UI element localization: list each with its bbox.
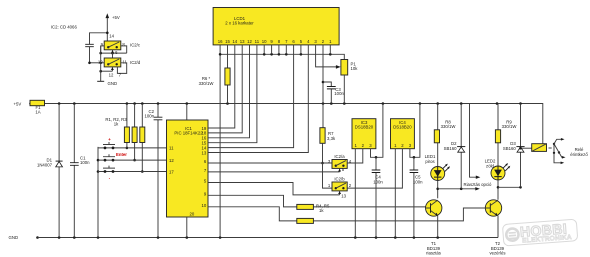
svg-text:100n: 100n <box>144 113 154 118</box>
wire IC2/d pin10 row <box>88 62 104 65</box>
resistor R3 <box>140 104 145 172</box>
capacitor C5 100n <box>410 156 424 238</box>
svg-text:11: 11 <box>255 39 260 44</box>
junction dots +5V rail <box>58 102 522 105</box>
wire data node to IC2/b pin1 <box>323 163 333 188</box>
wire PIC pin14 to LCD pin6 <box>208 45 294 148</box>
wire IC2/c pin8 loop <box>121 46 127 53</box>
wire IC2 left branch <box>90 32 109 45</box>
ground symbol IC2 block <box>97 81 117 86</box>
svg-text:330/1W: 330/1W <box>199 81 215 86</box>
svg-text:17: 17 <box>169 169 174 174</box>
wire LED2 to T2 collector <box>497 180 500 200</box>
node GND terminal <box>9 235 39 240</box>
wire LED2 node to D3 <box>498 186 522 189</box>
svg-text:1N4007: 1N4007 <box>37 163 53 168</box>
wire PIC pin13 to LCD pin4 <box>208 45 308 153</box>
wire PIC pin19 to LCD pin14 <box>208 45 235 128</box>
svg-text:100n: 100n <box>334 91 344 96</box>
wire PIC pin15 to LCD pin11 <box>208 45 257 143</box>
value label R4 R5 1k <box>316 204 330 214</box>
capacitor C3 100n <box>323 82 344 104</box>
resistor R4 <box>208 195 426 209</box>
svg-text:2 x 16 karkater: 2 x 16 karkater <box>225 20 254 25</box>
wire IC2 block left vertical to ground <box>100 46 102 81</box>
svg-text:1A: 1A <box>35 110 40 115</box>
IC1 left pin labels 11 12 17 <box>169 146 174 175</box>
svg-text:GND: GND <box>9 235 19 240</box>
wire IC2/c bypass loop <box>99 52 126 55</box>
wire PIC pin16 to LCD pin12 <box>208 45 250 138</box>
LCD1 2x16 module <box>213 8 339 45</box>
svg-text:DS18B20: DS18B20 <box>393 125 412 130</box>
wire LCD pin7 stub <box>285 45 287 54</box>
resistor R8 330/1W <box>434 104 456 167</box>
capacitor C2 100n <box>144 104 162 238</box>
LCD1 pin number labels 16..1 <box>218 39 332 44</box>
wire button common vertical to GND <box>97 147 99 238</box>
IC2/d control pin 12 <box>99 67 121 77</box>
wire GND rail <box>38 237 499 239</box>
svg-text:12: 12 <box>109 72 114 77</box>
svg-text:100n: 100n <box>413 180 423 185</box>
capacitor IC2 block <box>85 44 94 63</box>
transistor T2 BD139 <box>485 200 505 256</box>
svg-text:SB160: SB160 <box>503 146 517 151</box>
wire LCD pin5 stub <box>300 45 302 54</box>
svg-text:IC2: CD 4066: IC2: CD 4066 <box>51 25 78 30</box>
wire IC2/d pin11 loop <box>117 63 126 74</box>
svg-text:15: 15 <box>225 39 230 44</box>
svg-text:piros: piros <box>425 159 434 164</box>
svg-text:IC2/b: IC2/b <box>334 177 345 182</box>
wire LCD pin9 stub <box>271 45 273 54</box>
junction dots button common <box>97 159 100 173</box>
junction dots GND rail <box>58 236 439 239</box>
svg-text:vezérlés: vezérlés <box>489 250 505 255</box>
svg-text:IC2/d: IC2/d <box>130 60 141 65</box>
wire PIC pin1 supply from +5V rail <box>186 104 188 121</box>
svg-text:10: 10 <box>202 203 207 208</box>
analog switch IC2/a <box>328 154 352 168</box>
svg-text:+5V: +5V <box>14 102 22 107</box>
wire IC3 pin1 to GND rail <box>354 149 356 238</box>
wire LCD pin3 to P1 wiper <box>316 45 341 69</box>
wire LCD ground bus to P1 top <box>220 54 344 59</box>
wire PIC pin18 to LCD pin13 <box>208 45 242 133</box>
relay coil K1 <box>519 144 546 152</box>
capacitor C1 100n <box>70 104 90 238</box>
analog switch IC2/c <box>101 41 141 50</box>
IC2/c control pin 6 <box>111 50 118 58</box>
svg-text:IC2/a: IC2/a <box>334 154 345 159</box>
svg-text:12: 12 <box>169 158 174 163</box>
temperature sensor IC4 DS18B20 <box>391 119 415 149</box>
svg-text:IC2/c: IC2/c <box>130 43 141 48</box>
svg-text:330/1W: 330/1W <box>502 124 518 129</box>
svg-text:riasztás: riasztás <box>426 250 441 255</box>
wire IC3 pin2 to IC2/a pin4 <box>347 149 363 163</box>
capacitor C4 100n <box>372 156 384 238</box>
potentiometer P1 10k <box>341 60 358 104</box>
node +5V input terminal <box>14 102 32 107</box>
wire PIC pin6 to IC2/a pin3 <box>208 162 332 164</box>
svg-text:DS18B20: DS18B20 <box>355 125 374 130</box>
transistor T1 BD139 <box>426 200 442 256</box>
node +5V arrow supply IC2 <box>106 13 120 41</box>
wire alarm option upper arrow <box>470 104 481 179</box>
svg-text:GND: GND <box>108 81 118 86</box>
svg-text:Riasztás opció: Riasztás opció <box>464 182 493 187</box>
svg-text:zöld: zöld <box>486 164 494 169</box>
svg-text:10: 10 <box>262 39 267 44</box>
wire IC3 pin3 to +5V riser <box>371 104 383 158</box>
LED1 piros <box>425 154 450 180</box>
analog switch IC2/b <box>328 177 352 191</box>
svg-text:13: 13 <box>240 39 245 44</box>
svg-text:100n: 100n <box>373 180 383 185</box>
svg-text:14: 14 <box>232 39 237 44</box>
resistor R2 <box>132 104 137 161</box>
svg-text:10k: 10k <box>351 66 359 71</box>
svg-text:100n: 100n <box>80 160 90 165</box>
wire PIC pin7 to IC2/a pin5 <box>208 171 340 173</box>
resistor R5 <box>208 207 485 224</box>
diode D2 SB160 <box>444 104 466 189</box>
wire LED1 to T1 collector <box>436 181 439 199</box>
svg-text:13: 13 <box>202 150 207 155</box>
wire +5V rail <box>31 104 543 144</box>
diode D1 1N4007 <box>37 104 63 238</box>
wire IC4 pin2 to IC2/b pin2 <box>347 149 402 188</box>
svg-text:16: 16 <box>218 39 223 44</box>
svg-text:20: 20 <box>190 212 195 217</box>
svg-text:12: 12 <box>247 39 252 44</box>
junction dots LCD ground bus <box>219 53 332 56</box>
wire IC4 pin3 to +5V riser <box>410 104 420 158</box>
temperature sensor IC3 DS18B20 <box>352 119 376 149</box>
watermark HOBBI Elektronika logo <box>502 219 577 246</box>
svg-text:érintkező: érintkező <box>570 152 588 157</box>
microcontroller IC1 PIC 18F14K22 <box>167 120 209 217</box>
wire LCD pin10 stub <box>263 45 265 54</box>
svg-text:330/1W: 330/1W <box>441 124 457 129</box>
IC1 right pin labels <box>202 126 207 208</box>
svg-text:SB160: SB160 <box>444 146 458 151</box>
pushbutton S2 Enter <box>98 152 167 162</box>
svg-text:11: 11 <box>169 146 174 151</box>
wire LCD pin16 to GND rail <box>219 45 221 238</box>
resistor R1 <box>124 104 129 148</box>
pushbutton S1 plus <box>98 137 167 149</box>
node data line junction <box>321 162 324 165</box>
svg-text:Enter: Enter <box>116 152 127 157</box>
wire LCD pin8 stub <box>278 45 280 54</box>
relay contact symbol <box>549 138 589 164</box>
junction dots resistor bottoms <box>126 147 144 173</box>
svg-text:PIC 18F14K22: PIC 18F14K22 <box>174 130 203 135</box>
wire PIC pin5 to IC2/b pin13 <box>208 183 340 195</box>
svg-text:14: 14 <box>109 34 114 39</box>
value label R1 R2 R3 1k <box>105 117 127 127</box>
IC1 pin 20 label and wire to GND <box>187 212 195 238</box>
wire IC4 pin1 to GND rail <box>394 149 396 238</box>
wire R7 bottom to data node <box>322 143 324 163</box>
wire alarm option lower arrow <box>438 187 480 190</box>
diode D3 SB160 <box>503 104 525 188</box>
LED2 zold <box>485 159 511 180</box>
svg-text:13: 13 <box>341 193 346 198</box>
svg-text:3,3k: 3,3k <box>327 136 336 141</box>
pushbutton S3 minus <box>98 166 167 181</box>
IC2/a control pin 5 <box>338 167 345 172</box>
resistor R9 330/1W <box>495 104 517 167</box>
IC2/b control pin 13 <box>338 191 347 198</box>
wire LCD pin2 to +5V rail and R7 top <box>322 45 325 128</box>
fuse F1 <box>30 100 45 114</box>
wire IC2/c pin9 loop <box>101 46 105 53</box>
resistor R7 3.3k pull-up <box>320 128 336 144</box>
resistor R6 330/1W backlight <box>199 45 231 104</box>
analog switch IC2/d <box>98 58 141 67</box>
wire LCD pin1 stub <box>329 45 331 54</box>
svg-text:+5V: +5V <box>112 15 120 20</box>
